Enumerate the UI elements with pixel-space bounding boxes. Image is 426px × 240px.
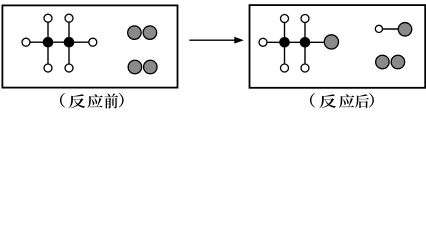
ethane carbon atoms (43, 37, 75, 48)
caption: (before reaction) (60, 93, 124, 109)
chloroethane carbon atoms (279, 37, 310, 48)
reaction arrow (189, 37, 244, 44)
chloroethane molecule bonds (263, 19, 331, 69)
ethane molecule bonds (26, 18, 93, 68)
chloroethane chlorine atom (324, 35, 338, 49)
Cl2 molecule (after) (376, 55, 405, 69)
Cl2 molecule bottom (before) (128, 60, 157, 74)
box: before-reaction container (2, 5, 177, 87)
HCl molecule (375, 23, 411, 37)
caption: (after reaction) (310, 93, 374, 108)
box: after-reaction container (250, 5, 426, 88)
chloroethane hydrogen atoms (259, 15, 309, 73)
Cl2 molecule top (before) (128, 26, 157, 40)
ethane hydrogen atoms (22, 14, 97, 72)
